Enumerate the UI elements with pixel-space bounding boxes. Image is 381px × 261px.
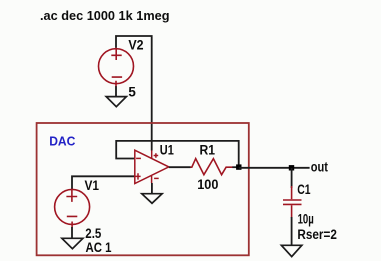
wire op-amp output to R1 <box>169 166 191 168</box>
ground below V1 <box>62 238 83 248</box>
ground below V2 <box>106 97 126 107</box>
wire V1 bottom to ground <box>71 227 73 238</box>
wire junction to C1 <box>291 168 293 188</box>
wire R1 right lead to output node <box>232 166 238 168</box>
voltage source V2 <box>99 48 134 87</box>
svg-text:2.5: 2.5 <box>85 226 101 241</box>
svg-text:Rser=2: Rser=2 <box>297 227 337 242</box>
positive supply marker <box>154 153 159 158</box>
wire from V2 top to op-amp V+ pin <box>116 36 152 151</box>
svg-text:DAC: DAC <box>49 133 76 148</box>
resistor R1 <box>190 159 233 175</box>
svg-text:U1: U1 <box>160 142 174 157</box>
svg-text:V1: V1 <box>85 178 100 193</box>
junction at C1 top <box>289 165 294 170</box>
op-amp U1 <box>135 150 169 183</box>
wire output node to out label <box>239 167 310 169</box>
svg-text:out: out <box>311 159 329 174</box>
negative supply pin <box>151 176 153 183</box>
svg-text:V2: V2 <box>128 37 143 52</box>
non-inverting input marker <box>135 173 140 179</box>
wire C1 bottom to ground <box>291 217 293 245</box>
wire V2 bottom to ground <box>115 86 117 96</box>
svg-text:10µ: 10µ <box>298 212 314 227</box>
negative supply marker <box>154 177 159 179</box>
feedback wire from output node to inverting input <box>116 141 239 165</box>
svg-text:R1: R1 <box>200 143 216 158</box>
svg-text:5: 5 <box>128 85 136 100</box>
wire op-amp V- pin to ground <box>151 183 153 194</box>
svg-text:.ac dec 1000 1k 1meg: .ac dec 1000 1k 1meg <box>40 9 170 23</box>
positive supply pin <box>151 150 153 158</box>
svg-text:100: 100 <box>197 177 218 192</box>
subcircuit box DAC <box>37 123 249 255</box>
voltage source V1 <box>55 189 90 227</box>
capacitor C1 <box>283 186 302 218</box>
svg-text:C1: C1 <box>297 182 311 197</box>
ground below C1 <box>281 245 301 256</box>
ground below op-amp <box>142 194 162 204</box>
junction at output node <box>236 164 241 169</box>
inverting input marker <box>136 157 141 159</box>
svg-text:AC 1: AC 1 <box>86 240 112 255</box>
wire V1 top to op-amp + input <box>72 176 135 189</box>
